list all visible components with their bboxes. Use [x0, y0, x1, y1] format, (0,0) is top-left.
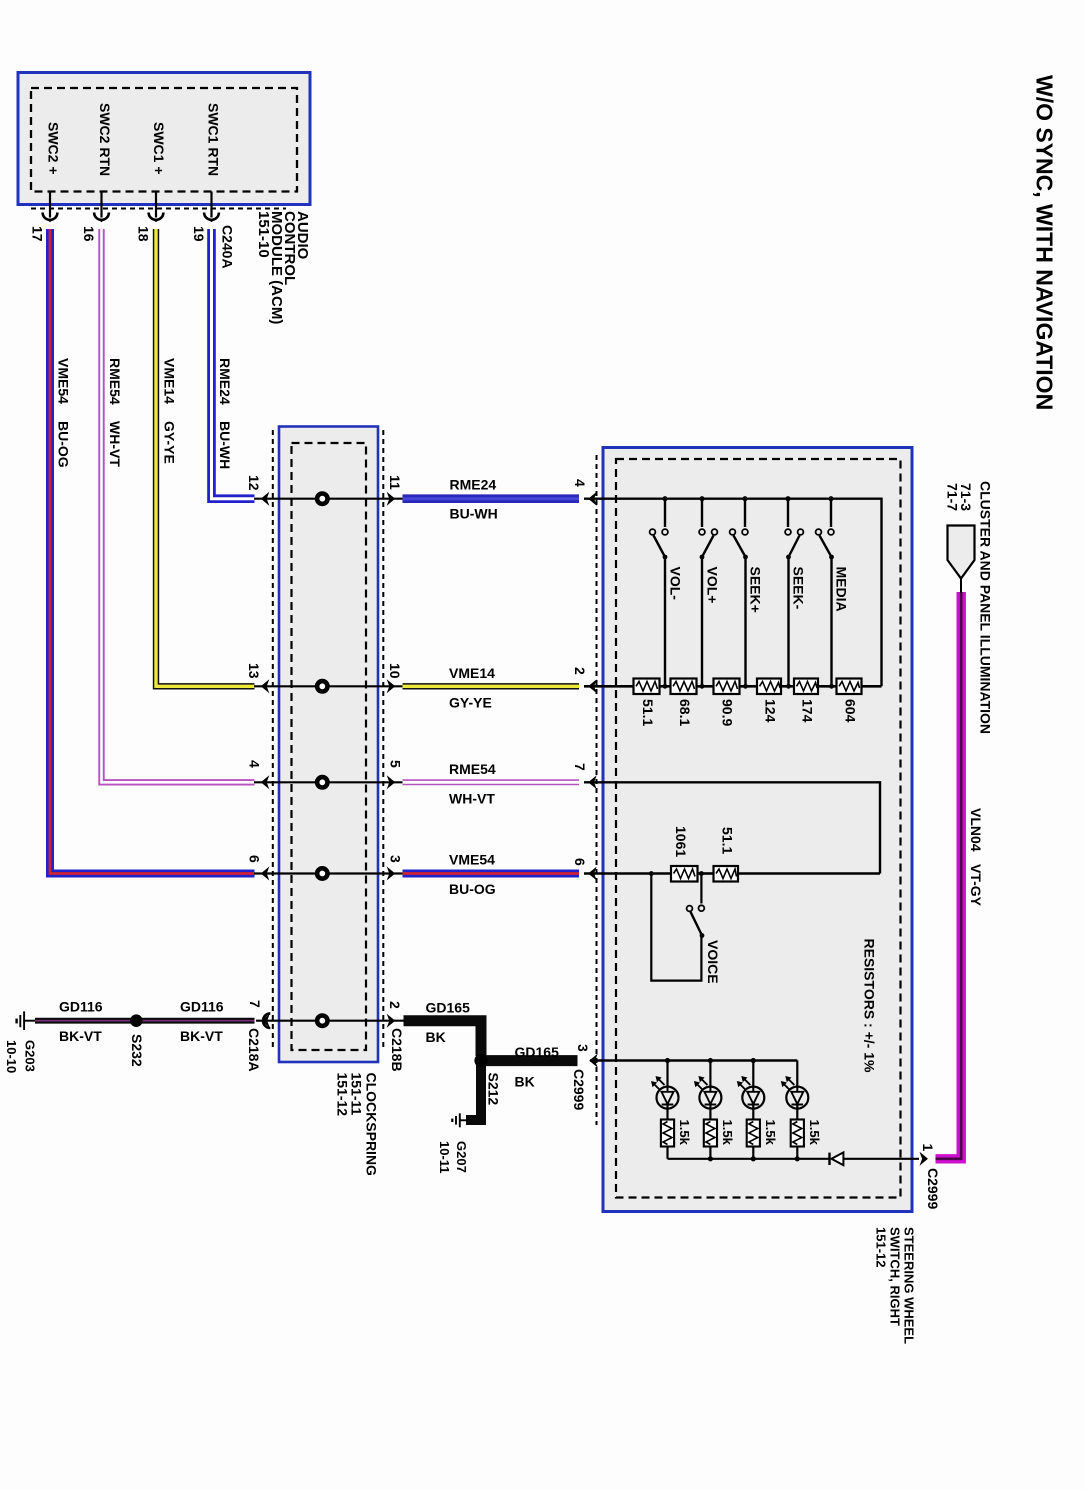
wire VME14 GY-YE from pin 18 to clockspring pin 13	[156, 229, 255, 686]
label RME24 BU-WH	[450, 477, 498, 522]
resistor 1.5k LED3	[747, 1120, 760, 1159]
svg-text:C218B: C218B	[389, 1028, 405, 1072]
switch SEEK+	[730, 499, 748, 687]
svg-text:4: 4	[247, 760, 263, 768]
svg-text:BK-VT: BK-VT	[59, 1028, 102, 1044]
row4 line segments inside box	[584, 872, 880, 875]
svg-text:7: 7	[247, 1000, 263, 1008]
splice S232	[130, 1014, 143, 1027]
label GD116 BK-VT left	[59, 999, 103, 1045]
clockspring right pin arrows	[387, 492, 396, 506]
svg-text:1.5k: 1.5k	[720, 1120, 735, 1146]
svg-text:BU-WH: BU-WH	[217, 421, 233, 469]
wire RME54 WH-VT clockspring to switch	[403, 779, 580, 785]
svg-text:BU-OG: BU-OG	[55, 421, 71, 468]
GD165 bus into LED section	[590, 1059, 797, 1061]
svg-text:C2999: C2999	[925, 1168, 941, 1209]
switch VOL-	[650, 499, 668, 687]
clockspring coil row1	[317, 494, 327, 504]
svg-text:19: 19	[191, 226, 207, 242]
svg-text:SWC2 +: SWC2 +	[46, 122, 62, 175]
switch box left pin arrows rows 1-4	[588, 492, 597, 506]
svg-text:RME24: RME24	[450, 477, 497, 493]
ACM pin 19 stub	[210, 192, 212, 218]
resistor 1.5k LED2	[704, 1120, 717, 1159]
svg-text:G207: G207	[454, 1141, 469, 1173]
ACM inner dashed connector box	[31, 88, 297, 192]
svg-text:151-12: 151-12	[335, 1073, 351, 1117]
svg-text:VOICE: VOICE	[705, 940, 721, 984]
resistor 604	[837, 679, 862, 695]
connector C218B dashed line	[382, 430, 384, 1049]
svg-text:BK: BK	[515, 1074, 535, 1090]
ACM module box U1	[18, 73, 310, 205]
label AUDIO CONTROL MODULE (ACM) 151-10	[255, 211, 311, 324]
svg-text:BK: BK	[426, 1029, 446, 1045]
wire label RME54 WH-VT	[107, 358, 123, 467]
svg-text:SEEK-: SEEK-	[790, 567, 806, 610]
wire RME24 BU-WH from pin 19 to clockspring pin 12	[212, 229, 255, 499]
LED 3 illumination	[737, 1061, 765, 1120]
svg-text:WH-VT: WH-VT	[449, 791, 495, 807]
svg-text:RME54: RME54	[107, 358, 123, 405]
connector hook pin 16	[94, 213, 109, 223]
switch box right exit arrow pin 1 C2999	[920, 1152, 929, 1166]
svg-text:C240A: C240A	[219, 225, 235, 269]
svg-text:GD165: GD165	[426, 1000, 471, 1016]
wire RME54 WH-VT from pin 16 to clockspring pin 4	[102, 229, 255, 782]
ACM pin 16 stub	[100, 192, 102, 218]
wire GD165 BK splice to switch	[481, 1055, 578, 1066]
wire GD165 BK clockspring to splice	[404, 1021, 482, 1056]
clockspring coil GD116 row	[317, 1016, 327, 1026]
svg-text:VOL-: VOL-	[667, 567, 683, 601]
svg-text:10-11: 10-11	[437, 1141, 452, 1174]
label GD165 BK lower	[515, 1044, 560, 1090]
wire label VME14 GY-YE	[161, 358, 177, 464]
wire label VME54 BU-OG	[55, 358, 71, 468]
ACM pin 17 stub	[49, 192, 51, 218]
svg-text:17: 17	[29, 226, 45, 242]
svg-text:GY-YE: GY-YE	[161, 421, 177, 464]
connector C218A dashed line	[272, 430, 274, 1049]
splice S212	[474, 1054, 487, 1067]
LED 1 illumination	[651, 1061, 679, 1120]
clockspring coil row2	[317, 681, 327, 691]
svg-text:VME14: VME14	[449, 665, 495, 681]
svg-text:12: 12	[246, 475, 262, 491]
svg-text:C2999: C2999	[571, 1069, 587, 1110]
svg-text:CLOCKSPRING: CLOCKSPRING	[364, 1073, 380, 1177]
GD116 wire through clockspring	[256, 1020, 404, 1022]
row2 wire through clockspring	[254, 685, 403, 687]
svg-text:68.1: 68.1	[677, 699, 693, 726]
wire RME24 BU-WH clockspring to switch	[403, 494, 580, 503]
resistor 124	[757, 679, 781, 695]
junction dots row4	[649, 871, 654, 876]
wire VME54 BU-OG from pin 17 to clockspring pin 6	[50, 229, 255, 874]
resistor 90.9	[714, 679, 740, 695]
svg-text:VME54: VME54	[449, 852, 495, 868]
label GD116 BK-VT right	[180, 999, 224, 1045]
svg-text:90.9: 90.9	[720, 699, 736, 726]
svg-text:1: 1	[920, 1144, 936, 1152]
svg-text:BU-WH: BU-WH	[450, 506, 498, 522]
label G207 10-11	[437, 1141, 469, 1174]
svg-text:GD165: GD165	[515, 1044, 560, 1060]
svg-text:6: 6	[572, 858, 588, 866]
svg-text:6: 6	[247, 855, 263, 863]
svg-text:VME14: VME14	[161, 358, 177, 404]
row1 wire through clockspring	[254, 498, 403, 500]
svg-text:174: 174	[799, 699, 815, 723]
svg-text:RESISTORS : +/- 1%: RESISTORS : +/- 1%	[861, 939, 877, 1073]
svg-text:2: 2	[387, 1001, 403, 1009]
svg-text:VME54: VME54	[55, 358, 71, 404]
svg-text:RME54: RME54	[449, 761, 496, 777]
resistor 51.1 voice	[714, 866, 739, 882]
svg-text:STEERING WHEEL: STEERING WHEEL	[901, 1227, 916, 1344]
svg-text:GY-YE: GY-YE	[449, 695, 492, 711]
svg-text:51.1: 51.1	[719, 827, 735, 854]
label GD165 BK upper	[426, 1000, 471, 1046]
diode D1	[830, 1152, 844, 1165]
label VME54 BU-OG	[449, 852, 496, 898]
label CLOCKSPRING 151-11 151-12	[335, 1073, 380, 1177]
clockspring coil row4	[317, 868, 327, 878]
wire GD165 down to ground G207	[466, 1061, 481, 1120]
resistor 51.1	[634, 679, 660, 695]
svg-text:GD116: GD116	[59, 999, 103, 1015]
svg-text:16: 16	[81, 226, 97, 242]
svg-text:10-10: 10-10	[4, 1040, 19, 1073]
junction dots resistor bus	[663, 684, 834, 689]
wire VME54 BU-OG clockspring to switch	[403, 870, 580, 878]
switch MEDIA	[816, 499, 834, 687]
junction dots LED bottom bus	[708, 1156, 800, 1161]
svg-text:4: 4	[572, 479, 588, 487]
svg-text:BU-OG: BU-OG	[449, 881, 496, 897]
resistor 174	[794, 679, 818, 695]
connector hook pin 19	[204, 213, 219, 223]
switch VOL+	[699, 499, 717, 687]
VOICE switch	[651, 874, 704, 981]
svg-text:1061: 1061	[673, 826, 689, 857]
svg-text:S212: S212	[485, 1073, 501, 1106]
svg-text:151-12: 151-12	[873, 1227, 888, 1267]
row3 wire through clockspring	[254, 781, 403, 783]
svg-text:RME24: RME24	[217, 358, 233, 405]
svg-text:SWC1 RTN: SWC1 RTN	[206, 103, 222, 176]
svg-text:151-10: 151-10	[255, 211, 272, 258]
ground G207	[452, 1113, 468, 1127]
svg-text:1.5k: 1.5k	[677, 1120, 692, 1146]
steering wheel switch box	[603, 448, 912, 1212]
wire VLN04 VT-GY to cluster	[936, 592, 962, 1159]
connector C2999 dashed line	[596, 455, 598, 1125]
svg-text:S232: S232	[129, 1034, 145, 1067]
svg-text:5: 5	[388, 760, 404, 768]
svg-text:C218A: C218A	[246, 1028, 262, 1072]
resistor 1.5k LED4	[791, 1120, 804, 1159]
svg-text:124: 124	[762, 699, 778, 723]
resistor 1.5k LED1	[661, 1120, 674, 1159]
svg-text:10: 10	[387, 663, 403, 679]
row2 bus segments between resistors	[584, 685, 882, 688]
row3 line inside box	[584, 782, 880, 873]
resistor 1061	[671, 866, 698, 882]
svg-text:SWITCH, RIGHT: SWITCH, RIGHT	[887, 1227, 902, 1326]
svg-text:VLN04: VLN04	[968, 808, 984, 852]
svg-text:2: 2	[572, 667, 588, 675]
svg-text:11: 11	[387, 475, 403, 490]
svg-text:3: 3	[575, 1044, 591, 1052]
label 71-3 71-7	[945, 483, 975, 511]
svg-text:18: 18	[135, 226, 151, 242]
svg-text:604: 604	[842, 699, 858, 723]
label STEERING WHEEL SWITCH, RIGHT 151-12	[873, 1227, 916, 1344]
clockspring box	[279, 427, 378, 1063]
svg-text:CLUSTER AND PANEL ILLUMINATION: CLUSTER AND PANEL ILLUMINATION	[977, 481, 993, 734]
switch SEEK-	[785, 499, 803, 687]
LED bottom bus	[668, 1158, 830, 1160]
resistor 68.1	[671, 679, 697, 695]
LED 4 illumination	[781, 1061, 809, 1120]
svg-text:3: 3	[388, 855, 404, 863]
svg-text:13: 13	[246, 663, 262, 679]
svg-text:MEDIA: MEDIA	[833, 567, 849, 612]
svg-text:SEEK+: SEEK+	[747, 567, 763, 613]
off-page pointer to cluster	[948, 526, 975, 594]
svg-text:BK-VT: BK-VT	[180, 1028, 223, 1044]
svg-text:G203: G203	[23, 1040, 38, 1072]
LED 2 illumination	[694, 1061, 722, 1120]
connector hook pin 18	[149, 213, 164, 223]
svg-text:VT-GY: VT-GY	[968, 864, 984, 907]
svg-text:71-7: 71-7	[945, 483, 961, 511]
clockspring inner dashed box	[292, 443, 367, 1050]
wire VME14 GY-YE clockspring to switch	[403, 683, 580, 689]
svg-text:1.5k: 1.5k	[763, 1120, 778, 1146]
junction dots top bus	[662, 496, 833, 501]
junction dots LED top bus	[665, 1058, 756, 1063]
clockspring coil row3	[317, 777, 327, 787]
connector C240A dashed line	[31, 208, 286, 210]
clockspring left pin arrows	[261, 492, 270, 506]
label G203 10-10	[4, 1040, 38, 1073]
GD116 left arrow and hook at pin 7	[261, 1013, 270, 1028]
svg-text:SWC1 +: SWC1 +	[151, 122, 167, 175]
svg-text:1.5k: 1.5k	[807, 1120, 822, 1146]
ground G203	[17, 1011, 36, 1030]
switch box left arrow pin 3	[589, 1054, 598, 1068]
svg-text:GD116: GD116	[180, 999, 224, 1015]
svg-text:W/O SYNC, WITH NAVIGATION: W/O SYNC, WITH NAVIGATION	[1032, 75, 1058, 410]
wire label RME24 BU-WH	[217, 358, 233, 469]
label RME54 WH-VT	[449, 761, 496, 807]
svg-text:VOL+: VOL+	[704, 567, 720, 604]
wire GD116 BK-VT	[35, 1018, 255, 1024]
svg-text:SWC2 RTN: SWC2 RTN	[97, 103, 113, 176]
row1 bus inside switch box	[584, 499, 882, 687]
label VME14 GY-YE	[449, 665, 495, 711]
switch inner dashed box	[616, 459, 901, 1198]
svg-text:7: 7	[572, 763, 588, 771]
svg-text:51.1: 51.1	[640, 699, 656, 726]
row4 wire through clockspring	[254, 872, 403, 874]
svg-text:WH-VT: WH-VT	[107, 421, 123, 467]
ACM pin 18 stub	[155, 192, 157, 218]
connector hook pin 17	[43, 213, 58, 223]
